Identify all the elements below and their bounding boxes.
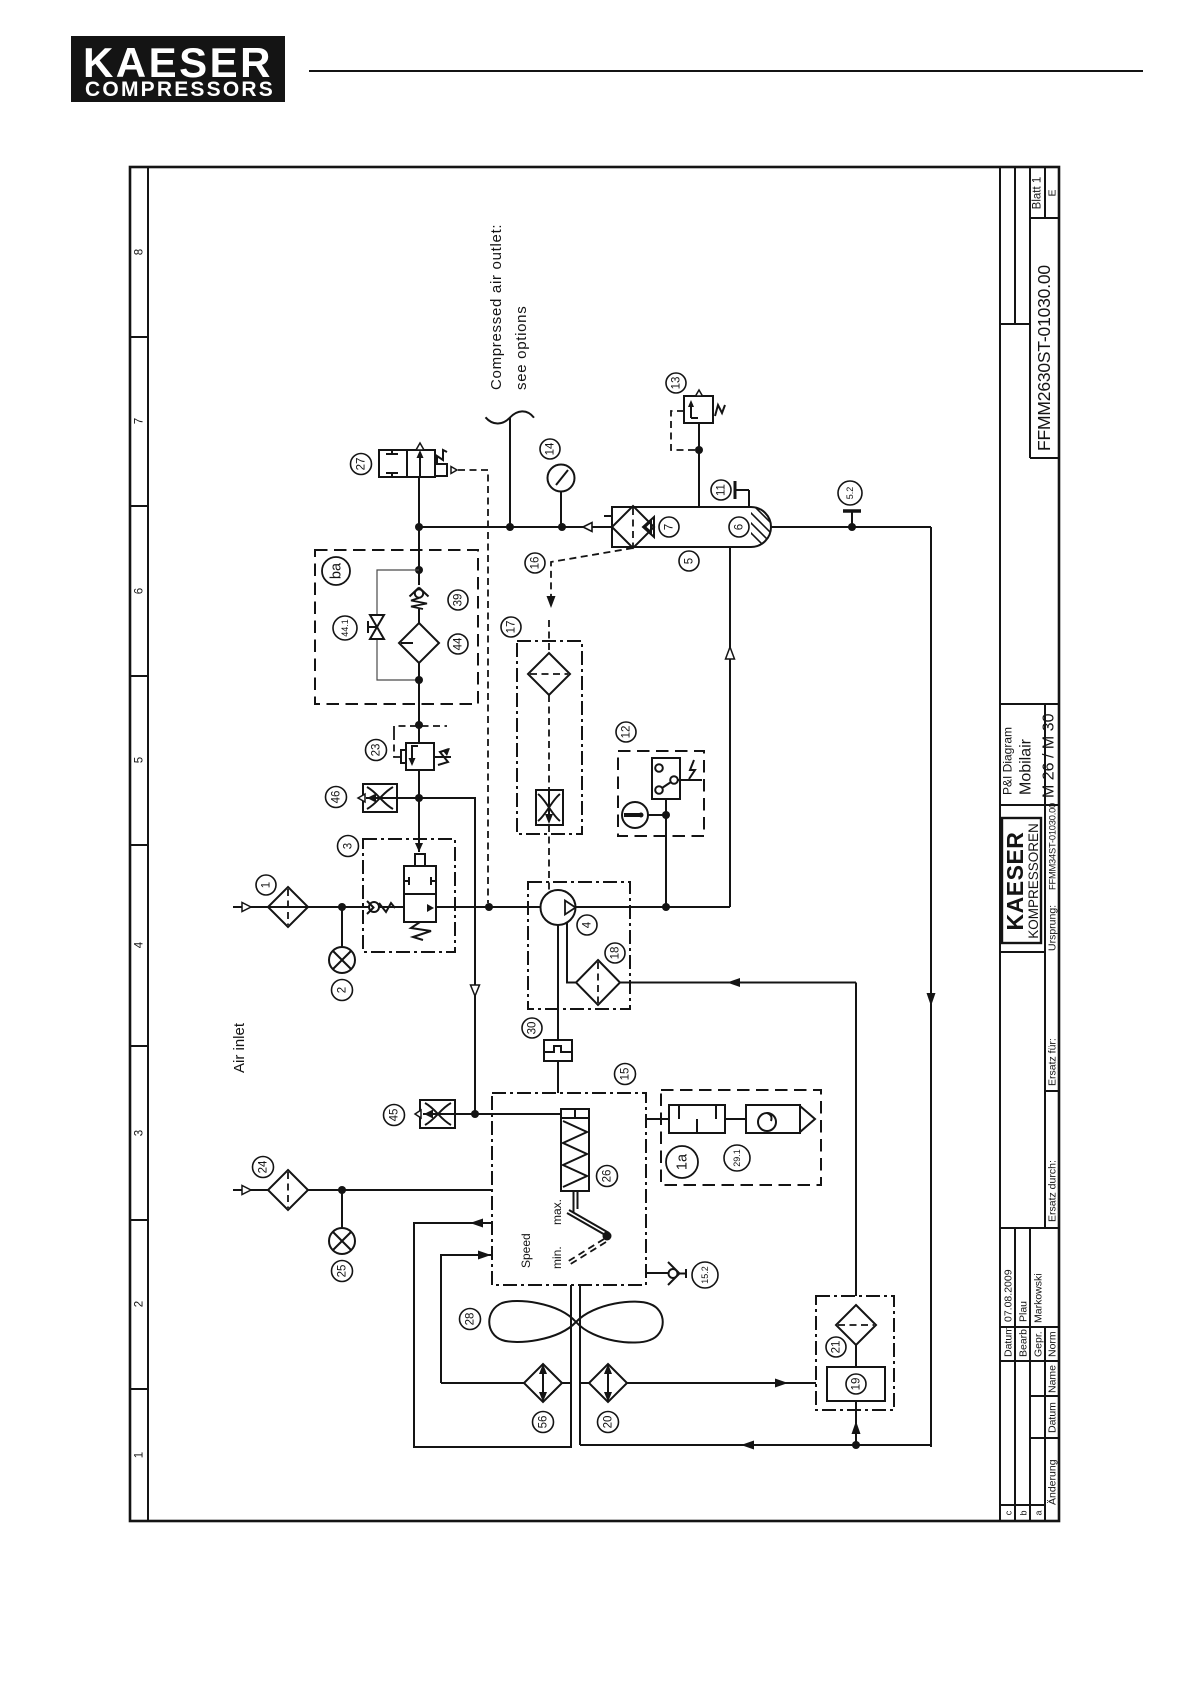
svg-text:26: 26 bbox=[602, 1170, 614, 1183]
valve 27 vent triangle bbox=[416, 443, 424, 450]
label 28 bbox=[460, 1309, 481, 1330]
svg-text:a: a bbox=[1034, 1510, 1044, 1515]
svg-text:7: 7 bbox=[664, 524, 676, 530]
svg-text:3: 3 bbox=[134, 1130, 146, 1136]
node junction pilot27 end bbox=[485, 903, 493, 911]
svg-text:5: 5 bbox=[684, 558, 696, 564]
svg-text:min.: min. bbox=[550, 1246, 564, 1269]
label 21 bbox=[826, 1337, 846, 1357]
wire filter 24 to engine bbox=[308, 1189, 492, 1191]
header rule line bbox=[309, 70, 1143, 72]
solenoid valve 27 bbox=[379, 450, 447, 477]
svg-text:Gepr.: Gepr. bbox=[1033, 1331, 1045, 1357]
valve 27 flow arrow bbox=[417, 450, 424, 458]
tank weld tick bbox=[604, 515, 612, 517]
svg-text:27: 27 bbox=[356, 458, 368, 471]
check valve at inlet bbox=[367, 901, 395, 914]
svg-text:FFMM34ST-01030.00: FFMM34ST-01030.00 bbox=[1048, 803, 1058, 890]
node junction 27/header bbox=[415, 523, 423, 531]
svg-text:E: E bbox=[1047, 189, 1059, 196]
label 3 bbox=[338, 836, 359, 857]
label 23 bbox=[366, 740, 387, 761]
svg-text:Plau: Plau bbox=[1018, 1301, 1030, 1322]
label 44 bbox=[448, 634, 468, 654]
svg-text:P&I Diagram: P&I Diagram bbox=[1001, 727, 1015, 795]
label 4 bbox=[577, 915, 597, 935]
svg-text:FFMM2630ST-01030.00: FFMM2630ST-01030.00 bbox=[1034, 265, 1054, 451]
svg-text:56: 56 bbox=[538, 1416, 550, 1429]
label 30 bbox=[522, 1018, 542, 1038]
svg-text:ba: ba bbox=[329, 562, 345, 579]
blowoff 25 bbox=[341, 1190, 343, 1228]
flow arrow down on riser bbox=[927, 993, 936, 1006]
label 56 bbox=[533, 1412, 554, 1433]
blowoff 2 bbox=[341, 907, 343, 947]
test point 5.2 bbox=[843, 509, 861, 513]
pressure element 12 bbox=[622, 802, 648, 828]
label 15 bbox=[615, 1064, 636, 1085]
svg-text:COMPRESSORS: COMPRESSORS bbox=[85, 78, 275, 101]
label 20 bbox=[598, 1412, 619, 1433]
label 16 bbox=[525, 553, 545, 573]
svg-text:Compressed air outlet:: Compressed air outlet: bbox=[488, 224, 505, 390]
wire 18 to oil return bbox=[620, 982, 856, 984]
oil cooler 20 line bbox=[580, 1383, 589, 1445]
temperature sensor 30 bbox=[544, 1040, 572, 1061]
airend box 4/18 (dash-dot) bbox=[528, 882, 630, 1009]
wire regulator to valve3 pilot bbox=[418, 798, 420, 852]
engine box 15 (dash-dot) bbox=[492, 1093, 646, 1285]
svg-text:29.1: 29.1 bbox=[732, 1149, 742, 1167]
label 19 bbox=[846, 1374, 866, 1394]
governor cylinder 26 bbox=[561, 1109, 589, 1212]
svg-text:6: 6 bbox=[734, 524, 746, 530]
svg-text:14: 14 bbox=[545, 442, 557, 455]
svg-text:18: 18 bbox=[610, 947, 622, 960]
pressure switch box 12 (dashed) bbox=[618, 751, 704, 836]
label 2 bbox=[332, 980, 353, 1001]
label 7 bbox=[659, 517, 679, 537]
pressure regulator 23 box (dashed) bbox=[394, 726, 447, 733]
gauge line bbox=[560, 491, 562, 527]
svg-text:46: 46 bbox=[331, 791, 343, 804]
check valve 39 bbox=[410, 588, 429, 624]
radiator 56 bbox=[441, 1382, 524, 1384]
inlet arrow bbox=[242, 903, 251, 912]
svg-text:3: 3 bbox=[343, 843, 355, 849]
svg-text:45: 45 bbox=[389, 1109, 401, 1122]
label 6 bbox=[729, 517, 749, 537]
wire: air inlet main bbox=[233, 906, 369, 908]
svg-text:16: 16 bbox=[530, 557, 542, 570]
svg-text:44: 44 bbox=[453, 637, 465, 650]
coolant circuit out bbox=[414, 1223, 571, 1447]
svg-text:17: 17 bbox=[506, 621, 518, 634]
label 46 bbox=[326, 787, 347, 808]
KAESER KOMPRESSOREN boxed logo bbox=[1002, 818, 1041, 943]
svg-text:13: 13 bbox=[671, 377, 683, 390]
svg-text:Ursprung:: Ursprung: bbox=[1047, 905, 1059, 951]
label 27 bbox=[351, 454, 372, 475]
separator tank 5 bbox=[612, 507, 771, 547]
KAESER COMPRESSORS logo box bbox=[71, 36, 285, 102]
air filter 1 bbox=[268, 887, 308, 927]
option box ba (dashed) bbox=[315, 550, 478, 704]
svg-text:30: 30 bbox=[527, 1022, 539, 1035]
node junction filter1 bbox=[338, 903, 346, 911]
regulator 23 bbox=[401, 743, 451, 770]
wire 30 to engine bbox=[557, 1061, 559, 1093]
nozzle 45 bbox=[420, 1100, 475, 1128]
svg-text:5.2: 5.2 bbox=[845, 487, 855, 500]
coolant circuit in bbox=[441, 1255, 492, 1383]
svg-text:Mobilair: Mobilair bbox=[1018, 738, 1035, 795]
compressor 4 bbox=[541, 890, 576, 925]
svg-text:44.1: 44.1 bbox=[340, 619, 350, 637]
svg-text:Änderung: Änderung bbox=[1047, 1459, 1059, 1505]
label 5.2 bbox=[838, 481, 862, 505]
label 24 bbox=[253, 1157, 274, 1178]
svg-text:2: 2 bbox=[134, 1301, 146, 1307]
label 15.2 bbox=[692, 1262, 718, 1288]
svg-text:Markowski: Markowski bbox=[1033, 1273, 1045, 1323]
filter 17 diamond bbox=[528, 653, 570, 695]
wire compressor down to 30 bbox=[557, 925, 559, 1040]
svg-text:Air inlet: Air inlet bbox=[231, 1022, 248, 1073]
label 26 bbox=[597, 1166, 618, 1187]
pilot line 13 bbox=[671, 411, 696, 450]
oil separator option box 1a (dashed) bbox=[661, 1090, 821, 1185]
pipe break squiggle bbox=[486, 411, 535, 423]
wire engine to separator 29.1 bbox=[646, 1118, 669, 1120]
svg-text:Ersatz durch:: Ersatz durch: bbox=[1047, 1160, 1059, 1222]
air filter 24 bbox=[268, 1170, 308, 1210]
svg-text:07.08.2009: 07.08.2009 bbox=[1003, 1269, 1015, 1322]
open arrow down on riser bbox=[471, 985, 480, 996]
fan 28 bbox=[489, 1301, 663, 1343]
svg-text:5: 5 bbox=[134, 757, 146, 763]
filter cartridge 7 diamond bbox=[612, 506, 654, 548]
svg-text:15: 15 bbox=[620, 1068, 632, 1081]
wire thermo riser bbox=[855, 983, 857, 1297]
svg-text:24: 24 bbox=[258, 1160, 270, 1173]
scavenge line 16 (dashed diagonal) bbox=[551, 548, 633, 596]
zone ticks bbox=[130, 336, 148, 338]
svg-text:21: 21 bbox=[831, 1341, 843, 1354]
svg-text:Datum: Datum bbox=[1003, 1326, 1015, 1357]
svg-text:Blatt 1: Blatt 1 bbox=[1032, 177, 1044, 210]
svg-text:1a: 1a bbox=[675, 1153, 691, 1170]
label 1a bbox=[666, 1146, 698, 1178]
svg-text:7: 7 bbox=[134, 418, 146, 424]
outer border bbox=[130, 167, 1059, 1521]
wire dashed through 17 bbox=[548, 620, 550, 653]
svg-text:see options: see options bbox=[513, 306, 530, 390]
node junction pilot13 bbox=[695, 446, 703, 454]
svg-text:28: 28 bbox=[465, 1313, 477, 1326]
label 1 bbox=[256, 875, 276, 895]
svg-text:19: 19 bbox=[851, 1378, 863, 1391]
svg-text:39: 39 bbox=[453, 594, 465, 607]
thermo valve 19 bbox=[855, 1345, 857, 1367]
label 44.1 bbox=[333, 616, 357, 640]
label ba bbox=[322, 557, 350, 585]
thermostat box 21/19 (dash-dot) bbox=[816, 1296, 894, 1410]
label 45 bbox=[384, 1105, 405, 1126]
wire: valve27 drop leg bbox=[418, 477, 420, 585]
open arrowhead into tank bbox=[583, 523, 592, 532]
wire: tank outlet to right riser bbox=[771, 526, 931, 528]
svg-text:8: 8 bbox=[134, 249, 146, 255]
option box 17 (dash-dot) bbox=[517, 641, 582, 834]
label 5 bbox=[679, 551, 699, 571]
nozzle in 17 bbox=[536, 790, 563, 825]
svg-text:11: 11 bbox=[716, 484, 728, 496]
label 17 bbox=[501, 617, 521, 637]
node junction gauge bbox=[558, 523, 566, 531]
inlet valve body bbox=[404, 854, 436, 940]
label 29.1 bbox=[724, 1145, 750, 1171]
label 14 bbox=[540, 439, 560, 459]
svg-text:Norm: Norm bbox=[1047, 1331, 1059, 1357]
label 12 bbox=[616, 722, 636, 742]
nozzle 46 bbox=[363, 784, 397, 812]
oil return bottom bbox=[580, 1444, 931, 1446]
vent 11 bbox=[735, 481, 749, 507]
svg-text:c: c bbox=[1004, 1510, 1014, 1515]
svg-text:max.: max. bbox=[550, 1199, 564, 1225]
oil filter 18 bbox=[576, 960, 620, 1005]
svg-text:Datum: Datum bbox=[1047, 1402, 1059, 1433]
wire 19 bottom bbox=[855, 1401, 857, 1445]
label 25 bbox=[332, 1261, 353, 1282]
fan shaft bbox=[570, 1285, 572, 1383]
wire compressor to oil filter 18 bbox=[567, 922, 577, 983]
label 18 bbox=[605, 943, 625, 963]
label 13 bbox=[666, 373, 686, 393]
pilot line 27 (dashed) bbox=[458, 470, 488, 903]
wire: outlet riser bbox=[509, 417, 511, 527]
zone strip line bbox=[147, 167, 149, 1521]
node junction bypass top bbox=[415, 566, 423, 574]
drain valve 15.2 bbox=[646, 1272, 668, 1274]
svg-text:23: 23 bbox=[371, 744, 383, 757]
svg-text:1: 1 bbox=[134, 1452, 146, 1458]
inlet arrow 24 bbox=[233, 1189, 268, 1191]
wire: oil riser right bbox=[930, 527, 932, 1447]
wire compressor out bbox=[576, 906, 667, 908]
open arrow up into tank bbox=[726, 647, 735, 659]
svg-text:M 26 / M 30: M 26 / M 30 bbox=[1041, 713, 1058, 798]
relief valve 13 bbox=[684, 396, 725, 423]
svg-text:4: 4 bbox=[582, 921, 594, 928]
speed lever bbox=[567, 1213, 607, 1236]
pressure gauge 14 bbox=[548, 465, 575, 492]
svg-text:Ersatz für:: Ersatz für: bbox=[1047, 1038, 1059, 1086]
label 39 bbox=[448, 590, 468, 610]
svg-text:1: 1 bbox=[261, 882, 273, 888]
valve 13 drop to tank bbox=[698, 423, 700, 507]
svg-text:Name: Name bbox=[1047, 1365, 1059, 1393]
shutoff valve 44.1 bbox=[368, 615, 384, 639]
svg-text:12: 12 bbox=[621, 726, 633, 739]
svg-text:15.2: 15.2 bbox=[700, 1266, 710, 1284]
wire: discharge header y=527 bbox=[419, 526, 612, 528]
svg-text:KAESER: KAESER bbox=[1002, 832, 1028, 931]
svg-text:20: 20 bbox=[603, 1416, 615, 1429]
svg-text:Speed: Speed bbox=[519, 1233, 533, 1268]
switch contact bbox=[652, 758, 702, 799]
node junction outlet bbox=[506, 523, 514, 531]
svg-text:KOMPRESSOREN: KOMPRESSOREN bbox=[1026, 823, 1041, 939]
valve 27 pilot arrow bbox=[451, 467, 457, 474]
separator element 29.1 bbox=[669, 1105, 815, 1133]
svg-text:2: 2 bbox=[337, 987, 349, 993]
wire 44 to regulator bbox=[418, 663, 420, 742]
wire node to inlet-control riser bbox=[397, 798, 475, 1114]
svg-text:4: 4 bbox=[134, 941, 146, 948]
wire 23 to node bbox=[418, 770, 420, 798]
svg-text:6: 6 bbox=[134, 588, 146, 594]
label 11 bbox=[711, 480, 731, 500]
oil filter 44 diamond bbox=[399, 623, 439, 663]
svg-text:Bearb.: Bearb. bbox=[1018, 1326, 1030, 1357]
bypass branch (thin) bbox=[377, 570, 419, 615]
svg-text:b: b bbox=[1019, 1510, 1029, 1515]
svg-text:25: 25 bbox=[337, 1265, 349, 1278]
inlet valve box 3 (dash-dot) bbox=[363, 839, 455, 952]
thermo bypass diamond 21 bbox=[836, 1305, 876, 1345]
